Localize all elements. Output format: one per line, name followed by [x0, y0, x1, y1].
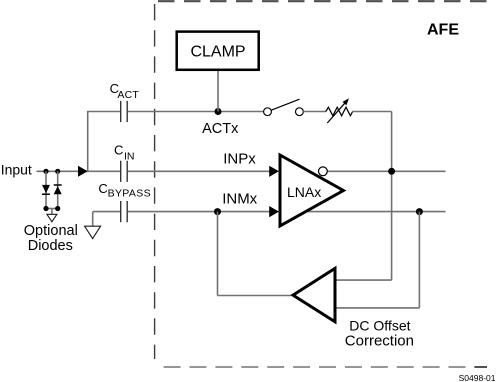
wire DC amp input top	[334, 279, 392, 281]
wire resistor to right corner	[352, 111, 391, 113]
wire CACT row left	[87, 111, 120, 113]
wire DC amp input bottom vertical	[418, 212, 420, 308]
wire input arrowhead into AFE	[78, 166, 88, 177]
wire bypass ground drop	[92, 212, 94, 226]
capacitor CBYPASS	[121, 201, 128, 222]
svg-text:Input: Input	[1, 162, 32, 178]
label CIN	[114, 142, 135, 162]
wire INMx line	[128, 211, 272, 213]
svg-text:Diodes: Diodes	[28, 238, 73, 254]
wire CLAMP drop	[217, 71, 219, 112]
label DC Offset Correction	[345, 317, 414, 349]
CLAMP block	[177, 32, 259, 70]
svg-text:INPx: INPx	[223, 151, 256, 168]
ground (open arrow) below diodes	[47, 214, 57, 222]
wire CACT to switch	[128, 111, 264, 113]
node diode bottom junction right	[55, 206, 60, 211]
svg-text:IN: IN	[124, 150, 135, 162]
wire diode ground stub	[51, 209, 53, 215]
node input junction A	[43, 169, 48, 174]
capacitor CIN	[121, 161, 128, 182]
op-amp DC offset correction	[293, 268, 335, 321]
node diode bottom junction left	[43, 206, 48, 211]
svg-text:LNAx: LNAx	[287, 184, 321, 200]
capacitor CACT	[121, 101, 128, 122]
ground (bypass)	[85, 226, 101, 238]
op-amp LNAx	[280, 155, 343, 226]
wire INMx arrowhead	[269, 206, 279, 217]
wire riser input to CACT	[87, 112, 89, 172]
wire feedback vertical	[217, 212, 219, 296]
svg-text:Optional: Optional	[24, 223, 78, 239]
label CBYPASS	[98, 181, 151, 200]
wire switch to resistor	[303, 111, 326, 113]
node ACTx junction	[215, 108, 222, 115]
wire LNA output top	[323, 170, 446, 172]
svg-text:CLAMP: CLAMP	[190, 44, 245, 61]
wire INPx line	[87, 170, 120, 172]
diode D2 (cathode up)	[54, 185, 62, 194]
wire INPx line right of CIN	[128, 170, 272, 172]
switch S1	[264, 99, 304, 115]
wire diode branch left	[45, 171, 47, 208]
wire diode branch right	[57, 171, 59, 208]
wire right vertical ACT feedback	[391, 112, 393, 281]
svg-text:AFE: AFE	[427, 22, 459, 39]
svg-text:C: C	[98, 181, 107, 196]
wire DC amp input bottom horizontal	[334, 307, 419, 309]
AFE boundary dashed border left	[154, 4, 156, 359]
wire bypass left stub	[93, 211, 120, 213]
node output top junction	[388, 168, 395, 175]
svg-text:DC Offset: DC Offset	[349, 317, 410, 333]
svg-text:Correction: Correction	[345, 332, 414, 349]
svg-text:S0498-01: S0498-01	[459, 373, 496, 382]
resistor R1 (variable)	[326, 98, 353, 123]
AFE boundary dashed border top	[158, 0, 496, 2]
svg-text:BYPASS: BYPASS	[108, 188, 151, 200]
svg-text:INMx: INMx	[222, 190, 257, 207]
node LNA output bubble	[319, 167, 328, 176]
svg-text:ACTx: ACTx	[202, 121, 239, 137]
AFE boundary dashed border bottom	[164, 366, 487, 368]
node feedback junction on INMx	[214, 208, 221, 215]
wire diode bottom bar	[46, 208, 58, 210]
svg-text:ACT: ACT	[117, 89, 139, 101]
label CACT	[110, 81, 140, 101]
AFE boundary dashed border bottom last dash	[474, 366, 487, 368]
svg-text:C: C	[114, 142, 123, 157]
wire LNA output bottom	[308, 211, 446, 213]
wire input line	[37, 170, 88, 172]
node input junction B	[55, 169, 60, 174]
node output bottom junction	[416, 208, 423, 215]
wire INPx arrowhead	[269, 166, 279, 177]
wire feedback horizontal	[218, 295, 292, 297]
diode D1 (cathode down)	[42, 185, 50, 194]
